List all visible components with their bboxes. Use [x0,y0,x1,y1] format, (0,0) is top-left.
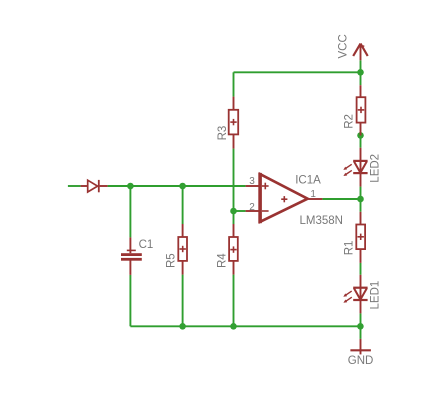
wire N1 down to R5 [182,186,184,224]
svg-text:GND: GND [348,355,374,367]
resistor R4 [229,224,238,275]
junction R2-LED2 [357,132,364,139]
op-amp IC1A [246,173,323,223]
svg-text:C1: C1 [139,239,154,251]
wire net N1 diode to opamp pin3 [108,185,246,187]
wire opamp output [322,198,360,200]
wire top rail horizontal [234,71,361,73]
wire top rail to R3 [233,72,235,96]
GND supply symbol [350,339,371,355]
wire LED2 to R1 [360,187,362,212]
diode D1 [81,180,108,192]
resistor R5 [178,224,187,275]
svg-text:LED2: LED2 [369,154,381,183]
junction at R5 top [179,183,186,190]
svg-text:LED1: LED1 [369,281,381,310]
wire R5 to bottom rail [182,275,184,327]
svg-text:2: 2 [249,202,255,213]
junction at output node [357,196,364,203]
wire N1 down to C1 [129,186,131,237]
svg-text:R4: R4 [216,253,228,268]
junction at diode output [127,183,134,190]
junction bottom right [357,323,364,330]
wire R4 to bottom rail [233,275,235,327]
LED1 [343,275,367,314]
svg-text:1: 1 [310,189,316,200]
capacitor C1 [121,237,142,275]
wire R2 to LED2 [360,135,362,147]
svg-text:LM358N: LM358N [300,215,343,227]
wire R3 to R4 vertical [233,149,235,224]
VCC supply symbol [353,44,368,61]
svg-text:IC1A: IC1A [295,175,321,187]
svg-text:R5: R5 [165,253,177,268]
wire R1 to LED1 [360,263,362,275]
junction R4 bottom [230,323,237,330]
wire bottom rail [130,325,360,327]
wire VCC to R2 [360,60,362,85]
svg-text:R2: R2 [344,114,356,129]
svg-text:3: 3 [249,176,255,187]
resistor R2 [357,85,366,135]
wire net N1 left segment [68,185,81,187]
svg-text:R3: R3 [217,126,229,141]
LED2 [343,148,367,187]
junction at pin2 node [230,208,237,215]
junction at VCC node [357,69,364,76]
resistor R1 [356,212,365,263]
wire LED1 to GND [360,313,362,339]
junction R5 bottom [179,323,186,330]
wire to opamp pin2 [234,210,246,212]
svg-text:VCC: VCC [338,34,350,58]
svg-text:R1: R1 [344,241,356,256]
resistor R3 [229,97,239,149]
wire C1 to bottom rail [129,275,131,326]
